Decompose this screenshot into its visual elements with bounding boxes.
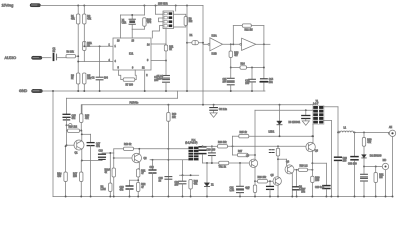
- wire: [131, 15, 133, 19]
- wire: [77, 84, 79, 91]
- wire: [80, 130, 82, 132]
- wire: [152, 173, 154, 197]
- wire: [76, 55, 79, 57]
- wire: [114, 148, 124, 150]
- svg-text:R7 100: R7 100: [126, 84, 134, 86]
- svg-text:GND: GND: [19, 89, 28, 93]
- wire IC pin8: [151, 60, 166, 62]
- connector CON1 2x5 header: [163, 11, 174, 29]
- resistor R4: [66, 55, 76, 58]
- junction: [167, 159, 169, 161]
- resistor R23: [189, 180, 192, 190]
- transistor Q2: [132, 153, 142, 163]
- wire: [255, 180, 258, 182]
- wire: [254, 181, 256, 185]
- wire IC2A out: [223, 43, 241, 45]
- wire: [231, 67, 240, 69]
- junction: [269, 196, 271, 198]
- svg-text:R26 10k: R26 10k: [258, 177, 267, 179]
- svg-text:C22: C22: [150, 167, 155, 169]
- capacitor C21s: [209, 153, 216, 156]
- wire pin9 loop: [135, 70, 136, 80]
- transistor Q6: [306, 142, 315, 151]
- op-amp IC2A: [208, 43, 210, 45]
- svg-text:1,2n: 1,2n: [230, 190, 235, 192]
- wire: [113, 149, 115, 153]
- svg-text:4k7: 4k7: [234, 55, 238, 57]
- svg-text:(1-1,Pw1-P): (1-1,Pw1-P): [185, 142, 197, 144]
- capacitor C2: [96, 77, 103, 80]
- svg-text:R16 2k2: R16 2k2: [69, 127, 78, 129]
- resistor R5: [83, 73, 86, 84]
- junction: [251, 90, 253, 92]
- resistor R14B: [240, 66, 247, 69]
- capacitor C29 electrolytic: [335, 157, 342, 160]
- svg-text:47k: 47k: [194, 184, 199, 186]
- wire rail D left drop: [81, 105, 83, 114]
- svg-text:Q2: Q2: [144, 158, 148, 160]
- svg-text:100: 100: [73, 176, 78, 178]
- svg-text:C2 2.2n: C2 2.2n: [219, 109, 228, 111]
- wire W3 to Q6 base: [228, 145, 307, 147]
- junction: [279, 104, 281, 106]
- wire T1 sec bottom: [323, 120, 331, 122]
- resistor R21: [137, 169, 140, 177]
- resistor R12: [242, 24, 251, 27]
- svg-text:R14: R14: [241, 64, 246, 66]
- junction: [239, 196, 241, 198]
- svg-text:D3 1N4001: D3 1N4001: [289, 122, 301, 124]
- svg-text:R5A: R5A: [87, 42, 92, 45]
- capacitor C2B: [210, 108, 218, 111]
- diode Z1: [204, 183, 209, 187]
- wire rail C left drop: [66, 98, 68, 114]
- junction C21 tap: [239, 162, 241, 164]
- wire: [337, 132, 339, 156]
- wire: [363, 146, 365, 154]
- junction: [363, 166, 365, 168]
- junction: [186, 5, 188, 7]
- wire pin12 to GND: [144, 70, 146, 91]
- wire: [230, 85, 232, 91]
- wire: [330, 121, 332, 197]
- svg-text:R27: R27: [238, 151, 243, 153]
- wire IC2B out: [256, 43, 270, 45]
- capacitor C5: [163, 76, 170, 79]
- junction: [230, 90, 232, 92]
- svg-text:47k: 47k: [87, 19, 92, 21]
- wire pin5 loop: [118, 70, 123, 80]
- junction: [77, 55, 79, 57]
- wire bottom rail: [53, 196, 393, 198]
- wire vertical x=53: [52, 91, 54, 197]
- wire: [233, 25, 242, 27]
- wire: [279, 125, 281, 136]
- wire GND rail A: [43, 90, 266, 92]
- junction: [305, 109, 307, 111]
- capacitor C31: [361, 174, 368, 177]
- trimcap TC1 dots: [269, 150, 274, 153]
- wire: [137, 177, 139, 183]
- wire Q3 emitter: [254, 167, 256, 181]
- resistor R2: [83, 14, 86, 24]
- capacitor C18 extra plate: [99, 158, 105, 160]
- svg-text:4k7: 4k7: [246, 188, 250, 190]
- wire +15V top rail: [41, 5, 204, 7]
- wire: [167, 105, 169, 113]
- junction: [152, 159, 154, 161]
- svg-text:104: 104: [104, 78, 109, 80]
- svg-text:100: 100: [315, 180, 320, 182]
- wire W2: [233, 135, 239, 137]
- diode D1: [192, 41, 199, 45]
- wire Q1 emitter: [81, 149, 83, 160]
- wire: [251, 68, 253, 79]
- junction: [99, 90, 101, 92]
- svg-text:P15Vdc: P15Vdc: [130, 101, 140, 104]
- wire: [296, 190, 298, 196]
- wire: [247, 67, 264, 69]
- junction: [80, 130, 82, 132]
- wire y160 to PL1: [150, 159, 189, 161]
- wire: [109, 192, 111, 197]
- capacitor C21: [237, 186, 244, 189]
- junction: [232, 43, 234, 45]
- wire: [354, 132, 356, 155]
- junction: [277, 145, 279, 147]
- svg-text:IC1: IC1: [129, 52, 134, 56]
- junction: [263, 43, 265, 45]
- connector J1 15Vreg pin: [30, 4, 41, 7]
- wire CON1 to R9 bottom: [174, 26, 186, 28]
- capacitor C14 plus: [261, 79, 268, 82]
- junction: [138, 148, 140, 150]
- wire: [77, 6, 79, 15]
- svg-text:AUDIO: AUDIO: [5, 56, 17, 60]
- wire: [233, 154, 238, 156]
- wire: [143, 6, 145, 16]
- svg-text:47k: 47k: [71, 19, 76, 21]
- capacitor C14 electrolytic: [260, 81, 267, 83]
- junction: [190, 174, 192, 176]
- svg-text:Q4: Q4: [286, 162, 290, 164]
- wire: [277, 146, 279, 148]
- junction: [167, 196, 169, 198]
- capacitor C20 electrolytic: [199, 147, 206, 154]
- svg-text:10u: 10u: [301, 192, 306, 194]
- svg-text:D1: D1: [190, 35, 194, 37]
- wire: [202, 155, 204, 163]
- junction: [330, 196, 332, 198]
- wire: [65, 182, 67, 197]
- wire: [90, 134, 92, 142]
- wire: [80, 105, 83, 114]
- resistor R3: [77, 73, 80, 84]
- transistor Q3: [249, 159, 257, 167]
- capacitor C32: [361, 178, 368, 181]
- junction: [131, 14, 133, 16]
- wire y163: [203, 162, 219, 164]
- junction: [311, 162, 313, 164]
- capacitor C22: [237, 190, 244, 193]
- wire: [99, 80, 101, 91]
- crystal X1: [129, 19, 135, 24]
- wire to IC pin4: [78, 61, 113, 63]
- svg-text:47k: 47k: [85, 118, 90, 120]
- wire: [129, 180, 131, 185]
- junction GND/x53: [52, 90, 54, 92]
- junction: [186, 42, 188, 44]
- svg-text:Q5: Q5: [271, 175, 275, 177]
- junction: [165, 90, 167, 92]
- resistor R26: [258, 180, 268, 183]
- svg-text:R18 1k: R18 1k: [124, 144, 132, 146]
- wire: [83, 51, 85, 62]
- resistor R2B: [109, 183, 112, 192]
- wire: [268, 180, 274, 182]
- wire: [182, 175, 184, 180]
- svg-text:1k: 1k: [71, 78, 74, 80]
- resistor R25: [239, 135, 249, 138]
- transistor Q4: [285, 165, 294, 174]
- svg-text:1u: 1u: [53, 51, 56, 53]
- wire: [137, 192, 139, 197]
- wire: [190, 189, 192, 197]
- junction: [182, 174, 184, 176]
- junction C2 tap: [99, 45, 101, 47]
- capacitor C24: [179, 181, 186, 184]
- svg-text:2: 2: [146, 75, 148, 77]
- svg-text:47: 47: [141, 187, 144, 189]
- junction: [213, 104, 215, 106]
- wire to Q3 base: [229, 162, 250, 164]
- resistor R11: [164, 45, 167, 51]
- svg-text:1u: 1u: [159, 180, 162, 182]
- wire: [296, 170, 298, 186]
- transistor Q5: [273, 177, 281, 185]
- svg-text:D2 1N4148: D2 1N4148: [370, 156, 382, 158]
- svg-text:IC2B: IC2B: [212, 54, 218, 56]
- junction: [337, 196, 339, 198]
- svg-text:R24 10k: R24 10k: [218, 142, 227, 144]
- svg-text:103: 103: [343, 160, 348, 162]
- junction: [113, 157, 115, 159]
- wire CON1 row4 to IC: [152, 26, 163, 39]
- wire: [230, 68, 232, 78]
- wire: [113, 177, 115, 197]
- wire: [102, 152, 114, 155]
- resistor R24: [218, 145, 228, 148]
- svg-text:104: 104: [223, 82, 228, 84]
- junction: [77, 61, 79, 63]
- wire: [211, 156, 213, 163]
- junction: [375, 196, 377, 198]
- wire: [213, 111, 215, 113]
- junction: [206, 162, 208, 164]
- wire: [182, 184, 184, 197]
- junction: [269, 180, 271, 182]
- junction: [311, 135, 313, 137]
- junction: [211, 162, 213, 164]
- wire: [80, 123, 82, 131]
- wire: [251, 82, 253, 91]
- junction: [113, 196, 115, 198]
- wire: [375, 183, 377, 197]
- wire: [354, 161, 356, 197]
- resistor R5A: [83, 42, 86, 51]
- svg-text:10u: 10u: [269, 82, 274, 84]
- capacitor C18 electrolytic: [99, 154, 106, 157]
- capacitor C12: [227, 82, 234, 85]
- svg-text:R28 2.2: R28 2.2: [300, 165, 309, 167]
- wire CON1 to R9 top: [174, 14, 186, 16]
- junction: [277, 196, 279, 198]
- wire to IC pin13: [131, 29, 133, 38]
- connector ANT jack: [388, 132, 390, 134]
- wire to Q2 base: [114, 157, 132, 159]
- svg-text:1k: 1k: [169, 49, 172, 51]
- svg-text:1-1-7: 1-1-7: [313, 104, 319, 106]
- resistor R16: [68, 129, 80, 132]
- capacitor C27 electrolytic: [293, 187, 300, 190]
- capacitor C19 electrolytic: [126, 186, 133, 189]
- svg-text:2k2: 2k2: [189, 21, 193, 23]
- wire: [363, 132, 365, 137]
- junction rail R1: [77, 5, 79, 7]
- junction: [202, 42, 204, 44]
- junction: [182, 196, 184, 198]
- wire: [155, 6, 157, 15]
- junction: [232, 145, 234, 147]
- wire: [67, 130, 68, 132]
- svg-text:R20A: R20A: [105, 169, 111, 172]
- capacitor C6: [163, 80, 170, 83]
- wire: [305, 110, 307, 115]
- svg-text:C18: C18: [99, 151, 104, 153]
- wire: [138, 168, 139, 170]
- wire: [131, 25, 133, 30]
- resistor R18: [124, 147, 134, 150]
- wire: [143, 26, 145, 29]
- wire Q5 collector: [277, 156, 279, 177]
- capacitor C15 electrolytic: [63, 114, 70, 117]
- wire: [77, 24, 79, 73]
- wire W2 right: [249, 135, 313, 137]
- wire Q4 emitter: [291, 173, 293, 196]
- wire T1 pri bottom to Q6: [312, 124, 314, 143]
- wire T1 pri top: [311, 104, 314, 106]
- junction: [77, 90, 79, 92]
- wire crystal bottom: [132, 28, 144, 30]
- svg-text:R25 1k: R25 1k: [240, 132, 248, 134]
- svg-text:Z1: Z1: [211, 184, 214, 186]
- junction: [155, 5, 157, 7]
- capacitor C33 electrolytic: [267, 186, 274, 189]
- capacitor C11: [227, 78, 234, 81]
- junction: [277, 158, 279, 160]
- resistor R27: [238, 153, 249, 156]
- junction: [83, 90, 85, 92]
- svg-text:TP2: TP2: [147, 22, 152, 24]
- capacitor C23: [165, 177, 172, 180]
- svg-text:1M: 1M: [379, 177, 382, 179]
- junction: [83, 45, 85, 47]
- junction: [65, 145, 67, 147]
- wire: [325, 163, 327, 185]
- svg-text:Q3: Q3: [246, 155, 250, 157]
- resistor R28: [299, 168, 308, 171]
- resistor R7: [123, 78, 135, 81]
- wire: [278, 158, 287, 160]
- resistor R13: [229, 51, 232, 58]
- svg-text:R4 10k: R4 10k: [67, 52, 75, 54]
- junction: [137, 179, 139, 181]
- junction: [167, 104, 169, 106]
- wire W3 left: [203, 145, 218, 147]
- resistor R14A: [64, 172, 67, 182]
- wire right vertical x=203: [202, 6, 204, 105]
- wire: [263, 44, 265, 78]
- svg-text:4k: 4k: [105, 172, 108, 174]
- wire: [83, 6, 85, 15]
- wire emitter row: [82, 160, 102, 162]
- wire y175: [180, 174, 199, 176]
- wire W1: [255, 109, 313, 111]
- capacitor C25 electrolytic: [302, 116, 310, 119]
- junction: [206, 196, 208, 198]
- wire: [269, 181, 271, 186]
- svg-text:IC2A: IC2A: [212, 35, 218, 38]
- wire T1 sec top: [323, 106, 338, 108]
- wire: [305, 119, 307, 121]
- junction: [230, 43, 232, 45]
- junction: [279, 135, 281, 137]
- trimmer TC: [69, 124, 72, 127]
- junction: [186, 90, 188, 92]
- wire: [325, 189, 327, 196]
- junction x203 rail D: [202, 104, 204, 106]
- wire: [80, 161, 82, 173]
- connector MIC jack: [382, 163, 388, 169]
- wire Q2 emitter: [138, 162, 140, 169]
- svg-text:C20 103: C20 103: [207, 150, 216, 152]
- wire Q1 collector: [81, 131, 83, 141]
- wire: [90, 146, 92, 197]
- wire to IC pin1: [84, 42, 113, 47]
- junction: [137, 196, 139, 198]
- wire: [83, 24, 85, 41]
- wire AUDIO: [42, 57, 51, 59]
- svg-text:C2: C2: [92, 78, 96, 80]
- wire: [165, 82, 167, 91]
- svg-text:LED1: LED1: [269, 132, 275, 134]
- svg-text:47u: 47u: [72, 118, 77, 120]
- wire: [294, 169, 299, 171]
- junction: [392, 196, 394, 198]
- svg-text:MC: MC: [383, 160, 387, 162]
- junction: [81, 160, 83, 162]
- svg-text:47: 47: [141, 173, 144, 175]
- connector J3 GND pin: [32, 89, 43, 92]
- resistor R20: [112, 168, 115, 177]
- junction: [296, 196, 298, 198]
- junction: [152, 196, 154, 198]
- junction: [254, 196, 256, 198]
- wire: [167, 121, 169, 196]
- ground chassis symbol: [302, 121, 309, 125]
- wire to IC2A input: [203, 43, 208, 45]
- svg-text:L1: L1: [344, 127, 347, 129]
